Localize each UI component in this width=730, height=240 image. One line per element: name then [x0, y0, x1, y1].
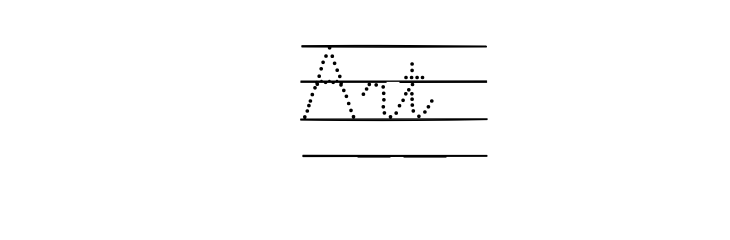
- letter t left diagonal (dotted stroke): [394, 88, 410, 115]
- letter t crossbar (dotted stroke): [404, 76, 424, 80]
- guideline bottom (hand-drawn double stroke): [303, 155, 487, 157]
- letter A apex dot: [328, 46, 332, 50]
- guideline middle (hand-drawn double stroke): [301, 81, 487, 82]
- letter t stem (dotted stroke): [410, 62, 414, 86]
- letter A right leg (dotted stroke): [331, 54, 356, 118]
- letter A left leg (dotted stroke): [303, 54, 328, 118]
- letter A crossbar (dotted stroke): [320, 80, 338, 84]
- guideline base (hand-drawn double stroke): [301, 119, 487, 121]
- letter t hooked tail (dotted stroke): [410, 92, 434, 118]
- letter n (dotted stroke: entry, arch, right stem, tail): [362, 83, 393, 119]
- guideline top (hand-drawn double stroke): [302, 46, 486, 47]
